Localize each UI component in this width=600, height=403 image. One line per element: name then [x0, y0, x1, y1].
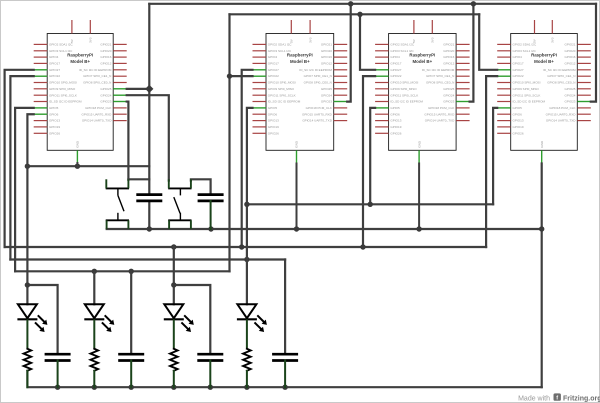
junction bottom bus R3 [171, 385, 176, 390]
svg-text:GPIO22: GPIO22 [49, 74, 60, 78]
svg-text:GPIO10 SPI0_MOSI: GPIO10 SPI0_MOSI [513, 81, 541, 85]
wire U3 GPIO22 drop x363 [363, 76, 375, 247]
capacitor C6 [198, 195, 224, 201]
wire C6 lower lead [210, 201, 212, 229]
wire C2 drop [130, 271, 132, 354]
svg-text:GPIO15 UART0_RXD: GPIO15 UART0_RXD [424, 112, 455, 116]
svg-text:Model B+: Model B+ [413, 59, 433, 64]
Raspberry Pi U4 (Model B+) [497, 20, 591, 164]
junction LED1 node [25, 282, 30, 287]
svg-text:Made with: Made with [518, 395, 550, 402]
svg-text:GPIO25: GPIO25 [443, 87, 454, 91]
svg-text:GND: GND [417, 140, 421, 148]
svg-text:RaspberryPi: RaspberryPi [531, 53, 557, 58]
svg-text:GPIO7 SPI0_CE1_N: GPIO7 SPI0_CE1_N [547, 74, 575, 78]
svg-text:GPIO24: GPIO24 [100, 93, 111, 97]
svg-text:GPIO24: GPIO24 [321, 93, 332, 97]
svg-text:GPIO20: GPIO20 [100, 49, 111, 53]
LED LED1 [17, 304, 47, 349]
svg-text:GPIO16: GPIO16 [443, 55, 454, 59]
junction busC x363 [360, 244, 365, 249]
junction bus204 x246 [244, 202, 249, 207]
svg-text:GPIO14 UART0_TXD: GPIO14 UART0_TXD [82, 119, 112, 123]
wire U2 GPIO5 drop x246 to LED4 [247, 108, 253, 304]
junction gnd C6 [208, 226, 213, 231]
svg-text:GPIO10 SPI0_MOSI: GPIO10 SPI0_MOSI [49, 81, 77, 85]
wire U1 GPIO27 drop x4.6 [5, 70, 34, 247]
svg-text:Model B+: Model B+ [70, 59, 90, 64]
Raspberry Pi U3 (Model B+) [375, 20, 470, 164]
svg-text:GPIO19: GPIO19 [513, 125, 524, 129]
svg-text:GPIO11 SPI0_SCLK: GPIO11 SPI0_SCLK [49, 93, 77, 97]
svg-text:GPIO13: GPIO13 [268, 119, 279, 123]
svg-text:Model B+: Model B+ [290, 59, 310, 64]
svg-text:GPIO6: GPIO6 [390, 112, 400, 116]
wire S2 jog to C6 [191, 179, 211, 194]
svg-text:GPIO16: GPIO16 [321, 55, 332, 59]
svg-text:3V3: 3V3 [89, 37, 93, 43]
svg-text:GPIO16: GPIO16 [100, 55, 111, 59]
junction U1 ground pin [75, 164, 80, 169]
junction bus2 x360 [357, 12, 362, 17]
wire U4 GPIO5 drop x493 [493, 108, 497, 204]
svg-text:GPIO12: GPIO12 [100, 62, 111, 66]
svg-text:GPIO24: GPIO24 [564, 93, 575, 97]
wire busC horizontal y247 [5, 246, 487, 248]
svg-text:GPIO6: GPIO6 [513, 112, 523, 116]
svg-text:GPIO11 SPI0_SCLK: GPIO11 SPI0_SCLK [268, 93, 296, 97]
wire busA horizontal y259 [10, 258, 285, 260]
wire U2 GPIO22 drop x229 [228, 14, 230, 271]
wire U3 GPIO27 drop x360 [360, 14, 375, 70]
wire vertical x149 top-bus to C5 [148, 4, 150, 195]
junction gnd U2 [294, 226, 299, 231]
junction bottom bus R2 [92, 385, 97, 390]
wire C3 lower lead [209, 361, 211, 388]
junction bottom bus C8 [282, 385, 287, 390]
resistor R2 [91, 349, 99, 371]
svg-text:GPIO20: GPIO20 [443, 49, 454, 53]
svg-text:GPIO12: GPIO12 [564, 62, 575, 66]
wire S1 jog to C5 [128, 178, 149, 180]
wire U2 GPIO25 riser [347, 4, 351, 102]
svg-text:GPIO5: GPIO5 [268, 106, 278, 110]
resistor R1 [24, 349, 32, 371]
junction diamond node A [145, 85, 153, 93]
svg-text:GPIO13: GPIO13 [390, 119, 401, 123]
svg-text:GPIO20: GPIO20 [321, 49, 332, 53]
svg-text:GND: GND [540, 140, 544, 148]
svg-text:GPIO13: GPIO13 [513, 119, 524, 123]
svg-text:GPIO22: GPIO22 [390, 74, 401, 78]
wire LED1 node to C1 jog [27, 285, 57, 354]
svg-text:GPIO4: GPIO4 [49, 55, 59, 59]
resistor R3 [170, 349, 178, 371]
svg-text:GPIO18 PCM_CLK: GPIO18 PCM_CLK [85, 106, 111, 110]
junction LED3 node [171, 282, 176, 287]
svg-text:ID_SC I2C ID EEPROM: ID_SC I2C ID EEPROM [79, 68, 112, 72]
wire top bus [149, 3, 596, 5]
junction bottom bus C2 [129, 385, 134, 390]
svg-text:GPIO18 PCM_CLK: GPIO18 PCM_CLK [428, 106, 454, 110]
svg-text:ID_SC I2C ID EEPROM: ID_SC I2C ID EEPROM [543, 68, 576, 72]
svg-text:GPIO16: GPIO16 [564, 55, 575, 59]
wire U1 GPIO5 drop x15 [15, 108, 34, 271]
wire U1 GPIO22 drop x10.4 [10, 76, 33, 259]
svg-text:GND: GND [76, 140, 80, 148]
svg-text:GPIO9 SPI0_MISO: GPIO9 SPI0_MISO [268, 87, 295, 91]
wire bus204 horizontal [247, 203, 493, 205]
svg-text:GPIO4: GPIO4 [390, 55, 400, 59]
wire ground bus y229 [107, 228, 542, 230]
junction busB C2 [129, 269, 134, 274]
wire C2 lower lead [130, 361, 132, 388]
svg-text:GPIO18 PCM_CLK: GPIO18 PCM_CLK [306, 106, 332, 110]
svg-text:GPIO15 UART0_RXD: GPIO15 UART0_RXD [81, 112, 112, 116]
junction gnd U3 [416, 226, 421, 231]
svg-text:GPIO21: GPIO21 [443, 43, 454, 47]
svg-text:ID_SD I2C ID EEPROM: ID_SD I2C ID EEPROM [49, 100, 82, 104]
svg-text:ID_SC I2C ID EEPROM: ID_SC I2C ID EEPROM [422, 68, 455, 72]
svg-text:GPIO22: GPIO22 [268, 74, 279, 78]
svg-text:GPIO19: GPIO19 [390, 125, 401, 129]
svg-text:GPIO26: GPIO26 [390, 131, 401, 135]
svg-text:GPIO21: GPIO21 [564, 43, 575, 47]
wire bus166 horizontal [27, 165, 149, 167]
wire U1 GPIO25 to top bus [127, 88, 150, 90]
capacitor C2 [118, 354, 144, 360]
svg-text:GPIO7 SPI0_CE1_N: GPIO7 SPI0_CE1_N [83, 74, 111, 78]
svg-text:GPIO6: GPIO6 [49, 112, 59, 116]
wire U4 GND drop long [541, 164, 543, 388]
svg-text:GPIO15 UART0_RXD: GPIO15 UART0_RXD [546, 112, 577, 116]
svg-text:GPIO8 SPI0_CE0_N: GPIO8 SPI0_CE0_N [547, 81, 575, 85]
wire U2 GND drop [296, 164, 298, 230]
wire LED2 drop [93, 271, 95, 304]
svg-text:GPIO2 SDA1 I2C: GPIO2 SDA1 I2C [513, 43, 538, 47]
svg-text:GPIO12: GPIO12 [443, 62, 454, 66]
svg-text:GPIO26: GPIO26 [268, 131, 279, 135]
junction top bus x473 [471, 1, 476, 6]
wire busA to C8 drop x285 [284, 260, 286, 355]
junction bus204 x370 [368, 202, 373, 207]
svg-text:GPIO8 SPI0_CE0_N: GPIO8 SPI0_CE0_N [426, 81, 454, 85]
svg-text:GPIO11 SPI0_SCLK: GPIO11 SPI0_SCLK [390, 93, 418, 97]
svg-text:GPIO27: GPIO27 [390, 68, 401, 72]
svg-text:GPIO17: GPIO17 [513, 62, 524, 66]
wire U2 GPIO22 stub link [230, 75, 253, 77]
wire U1 GPIO6 drop x27 to LED1 [27, 114, 33, 304]
svg-text:GPIO9 SPI0_MISO: GPIO9 SPI0_MISO [390, 87, 417, 91]
wire U3 GPIO25 riser [470, 4, 474, 102]
svg-text:GPIO9 SPI0_MISO: GPIO9 SPI0_MISO [513, 87, 540, 91]
svg-text:GPIO12: GPIO12 [321, 62, 332, 66]
svg-text:GPIO4: GPIO4 [513, 55, 523, 59]
svg-text:GPIO7 SPI0_CE1_N: GPIO7 SPI0_CE1_N [304, 74, 332, 78]
svg-text:GPIO10 SPI0_MOSI: GPIO10 SPI0_MOSI [268, 81, 296, 85]
junction busA LED4 [244, 257, 249, 262]
svg-text:GND: GND [295, 140, 299, 148]
svg-text:RaspberryPi: RaspberryPi [287, 53, 313, 58]
wire U3 GND drop [418, 164, 420, 230]
wire U2 GPIO27 drop x241 [242, 70, 253, 247]
svg-text:GPIO17: GPIO17 [390, 62, 401, 66]
wire C8 lower lead [284, 361, 286, 388]
capacitor C3 [197, 354, 223, 360]
svg-text:ID_SC I2C ID EEPROM: ID_SC I2C ID EEPROM [299, 68, 332, 72]
svg-text:GPIO19: GPIO19 [49, 125, 60, 129]
wire U1 GPIO23 to S1 jog [127, 102, 129, 180]
svg-text:GPIO23: GPIO23 [321, 100, 332, 104]
svg-text:GPIO2 SDA1 I2C: GPIO2 SDA1 I2C [268, 43, 293, 47]
junction bus166 x27 [25, 164, 30, 169]
wire U1 GND pin link [76, 163, 78, 166]
svg-text:GPIO21: GPIO21 [321, 43, 332, 47]
pushbutton S2 [168, 179, 191, 229]
svg-text:GPIO24: GPIO24 [443, 93, 454, 97]
svg-text:GPIO18 PCM_CLK: GPIO18 PCM_CLK [549, 106, 575, 110]
svg-text:Model B+: Model B+ [534, 59, 554, 64]
wire R4 lower lead [246, 371, 248, 387]
junction gnd C5 [147, 226, 152, 231]
svg-text:GPIO22: GPIO22 [513, 74, 524, 78]
LED LED4 [237, 304, 267, 349]
Raspberry Pi U2 (Model B+) [253, 20, 348, 164]
svg-text:GPIO8 SPI0_CE0_N: GPIO8 SPI0_CE0_N [83, 81, 111, 85]
wire U3 GPIO5 drop x370 [370, 108, 375, 204]
wire U1 GPIO24 to S2 [127, 95, 169, 180]
wire R3 lower lead [173, 371, 175, 387]
svg-text:3V3: 3V3 [431, 37, 435, 43]
junction x229 GPIO22 [227, 73, 232, 78]
svg-text:GPIO20: GPIO20 [564, 49, 575, 53]
wire U4 GPIO27 drop x479 [479, 14, 497, 70]
svg-text:GPIO21: GPIO21 [100, 43, 111, 47]
wire R1 lower lead [26, 371, 28, 387]
svg-text:3V3: 3V3 [308, 37, 312, 43]
svg-text:GPIO8 SPI0_CE0_N: GPIO8 SPI0_CE0_N [304, 81, 332, 85]
junction bottom bus C1 [55, 385, 60, 390]
svg-text:GPIO15 UART0_RXD: GPIO15 UART0_RXD [302, 112, 333, 116]
svg-text:GPIO6: GPIO6 [268, 112, 278, 116]
resistor R4 [243, 349, 251, 371]
svg-text:GPIO17: GPIO17 [268, 62, 279, 66]
svg-text:GPIO26: GPIO26 [49, 131, 60, 135]
svg-text:GPIO25: GPIO25 [100, 87, 111, 91]
junction busC LED3 feed [171, 244, 176, 249]
svg-text:GPIO11 SPI0_SCLK: GPIO11 SPI0_SCLK [513, 93, 541, 97]
wire bus2 horizontal [230, 13, 480, 15]
wire R2 lower lead [93, 371, 95, 387]
svg-text:RaspberryPi: RaspberryPi [67, 53, 93, 58]
svg-text:GPIO5: GPIO5 [390, 106, 400, 110]
svg-text:GPIO13: GPIO13 [49, 119, 60, 123]
junction top bus x350 [348, 1, 353, 6]
svg-text:GPIO5: GPIO5 [513, 106, 523, 110]
capacitor C1 [45, 354, 71, 360]
svg-text:RaspberryPi: RaspberryPi [409, 53, 435, 58]
junction busB LED2 [92, 269, 97, 274]
LED LED3 [164, 304, 194, 349]
svg-text:GPIO25: GPIO25 [321, 87, 332, 91]
Fritzing watermark [518, 393, 600, 402]
svg-text:3V3: 3V3 [551, 37, 555, 43]
svg-text:GPIO2 SDA1 I2C: GPIO2 SDA1 I2C [49, 43, 74, 47]
junction busC x241 [239, 244, 244, 249]
junction gnd U4 [539, 226, 544, 231]
svg-text:GPIO5: GPIO5 [49, 106, 59, 110]
svg-text:GPIO26: GPIO26 [513, 131, 524, 135]
pushbutton S1 [106, 179, 129, 229]
svg-text:GPIO14 UART0_TXD: GPIO14 UART0_TXD [546, 119, 576, 123]
svg-text:ID_SD I2C ID EEPROM: ID_SD I2C ID EEPROM [268, 100, 301, 104]
wire bottom ground bus [27, 371, 541, 387]
svg-text:ID_SD I2C ID EEPROM: ID_SD I2C ID EEPROM [513, 100, 546, 104]
svg-text:GPIO27: GPIO27 [268, 68, 279, 72]
junction bottom bus C3 [208, 385, 213, 390]
svg-text:GPIO23: GPIO23 [443, 100, 454, 104]
LED LED2 [84, 304, 114, 349]
wire busB horizontal y271 [15, 270, 229, 272]
svg-text:Fritzing.org: Fritzing.org [563, 395, 600, 402]
svg-text:GPIO14 UART0_TXD: GPIO14 UART0_TXD [302, 119, 332, 123]
svg-text:f: f [556, 395, 558, 401]
capacitor C8 [272, 354, 298, 360]
svg-text:ID_SD I2C ID EEPROM: ID_SD I2C ID EEPROM [390, 100, 423, 104]
svg-text:GPIO19: GPIO19 [268, 125, 279, 129]
svg-text:GPIO23: GPIO23 [100, 100, 111, 104]
svg-text:GPIO2 SDA1 I2C: GPIO2 SDA1 I2C [390, 43, 415, 47]
wire LED3 node to C3 jog [173, 247, 175, 304]
svg-text:GPIO14 UART0_TXD: GPIO14 UART0_TXD [425, 119, 455, 123]
Raspberry Pi U1 (Model B+) [34, 20, 127, 164]
wire C1 lower lead [57, 361, 59, 388]
junction bottom bus R4 [244, 385, 249, 390]
svg-text:GPIO9 SPI0_MISO: GPIO9 SPI0_MISO [49, 87, 76, 91]
svg-text:GPIO27: GPIO27 [513, 68, 524, 72]
svg-text:GPIO7 SPI0_CE1_N: GPIO7 SPI0_CE1_N [426, 74, 454, 78]
svg-text:GPIO23: GPIO23 [564, 100, 575, 104]
capacitor C5 [136, 195, 162, 201]
wire U4 GPIO25 riser right edge [591, 4, 596, 102]
svg-text:GPIO27: GPIO27 [49, 68, 60, 72]
svg-text:GPIO4: GPIO4 [268, 55, 278, 59]
svg-text:GPIO25: GPIO25 [564, 87, 575, 91]
svg-text:GPIO10 SPI0_MOSI: GPIO10 SPI0_MOSI [390, 81, 418, 85]
wire U4 GPIO22 drop x486 [486, 76, 497, 247]
svg-text:GPIO17: GPIO17 [49, 62, 60, 66]
